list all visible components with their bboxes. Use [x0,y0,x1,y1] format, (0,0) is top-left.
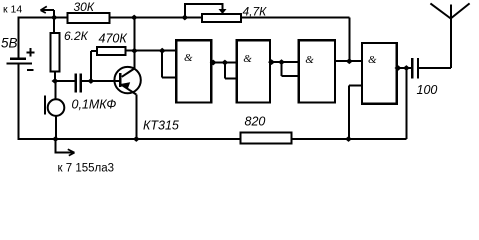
svg-text:к 14: к 14 [3,4,22,16]
svg-text:4,7К: 4,7К [243,5,268,19]
svg-text:470К: 470К [99,32,128,46]
svg-text:&: & [243,53,252,65]
svg-text:100: 100 [417,83,438,97]
svg-text:820: 820 [245,115,266,129]
svg-text:к 7 155ла3: к 7 155ла3 [58,163,115,175]
svg-text:&: & [368,54,377,66]
svg-text:30К: 30К [74,0,95,14]
svg-text:0,1МКФ: 0,1МКФ [72,98,117,112]
svg-text:&: & [305,54,314,66]
svg-text:6.2К: 6.2К [64,29,89,43]
svg-text:КТ315: КТ315 [143,119,179,133]
svg-text:&: & [184,52,193,64]
svg-text:5В: 5В [1,36,18,51]
